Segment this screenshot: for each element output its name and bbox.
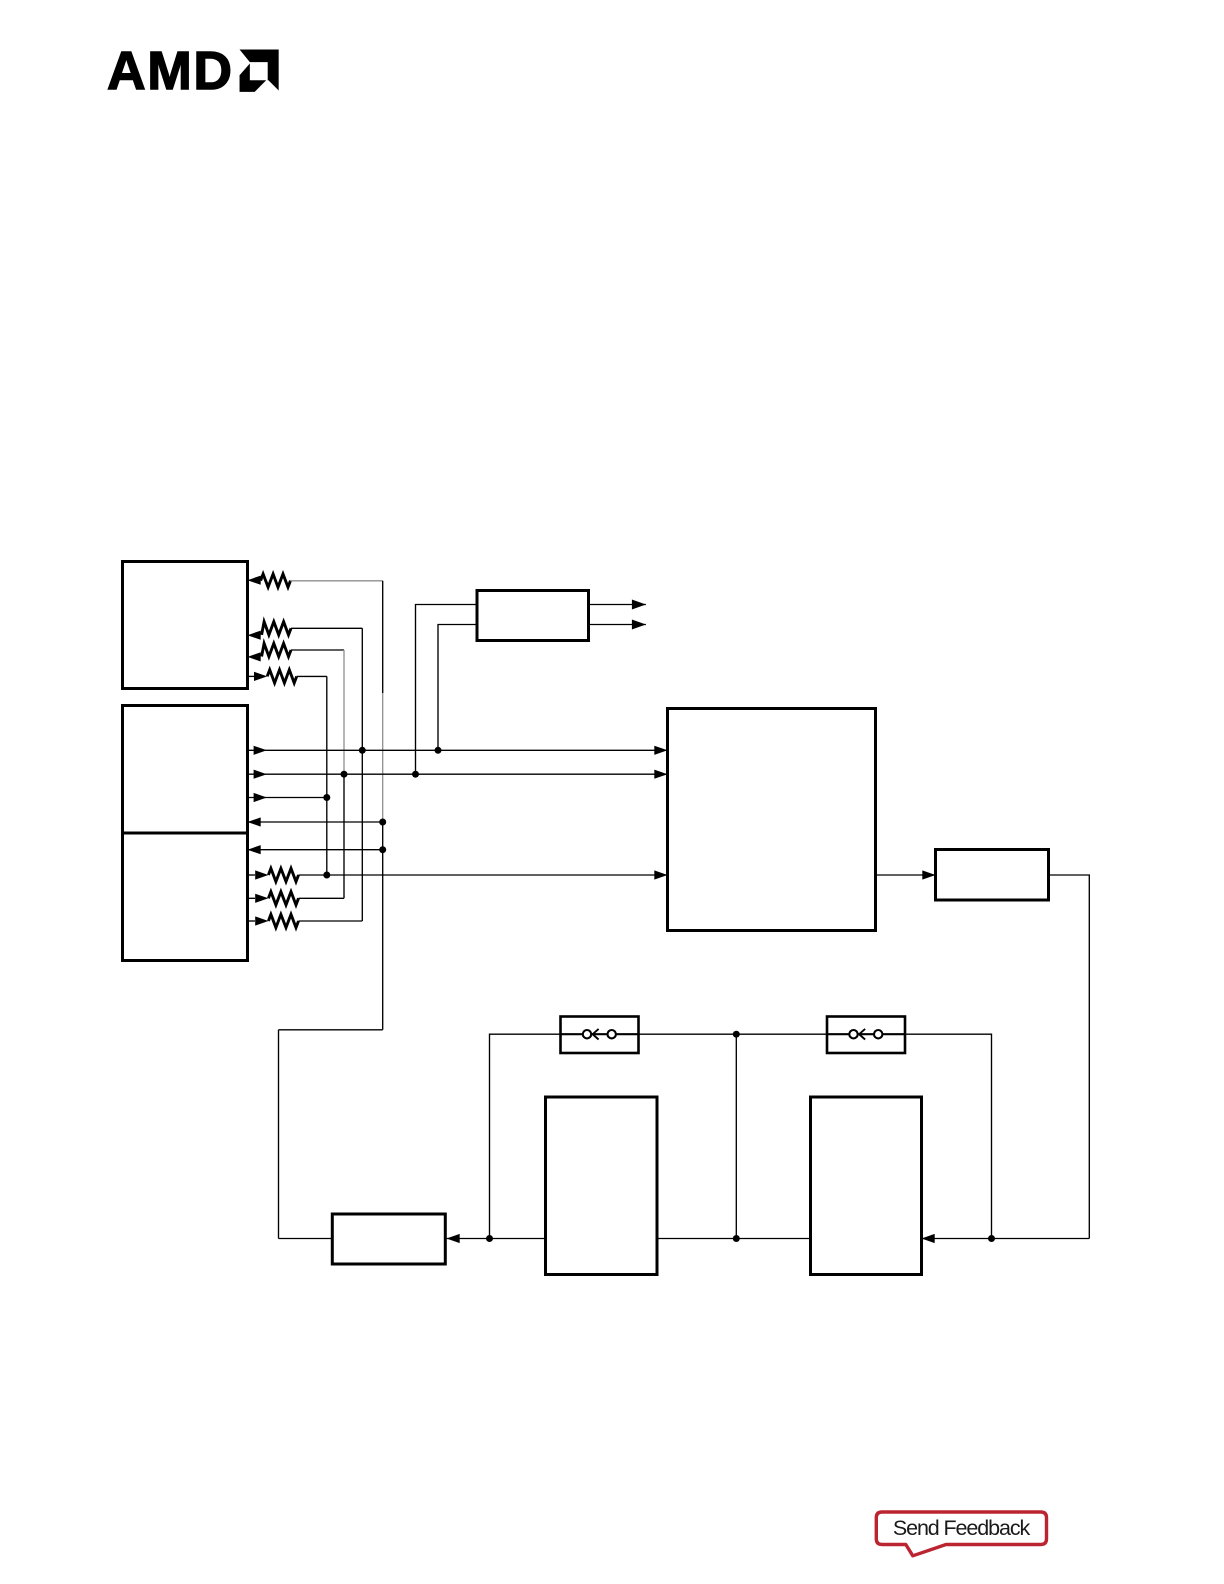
valve V2 chevron arrow [859,1029,865,1040]
wire valve V1 to valve V2 [639,1033,828,1035]
wire horizontal y1024 to left [279,1029,383,1031]
wire row7 to vertical x344 [299,897,345,899]
resistor R4 arrowhead pointing right [254,672,267,681]
resistor R4 zigzag [267,670,297,683]
junction dot bottom rail x991 [988,1235,995,1242]
wire row5 from vertical x383 into bottom box [248,849,383,851]
wire vertical x278 down to bottom rail [278,1030,280,1239]
wire vertical x383 middle section (gray) [382,693,384,822]
block: top-center box [477,591,589,641]
wire valve V1 left segment and drop [490,1034,561,1238]
junction dot row2 x344 [341,771,348,778]
Send Feedback speech bubble [876,1512,1046,1556]
block: middle-left box [123,706,248,834]
junction dot valve mid x736 [733,1031,740,1038]
arrowhead row2 into main box [654,770,667,779]
block: top-left control box [123,562,248,689]
wire bottom rail feedback box to left tall box [447,1238,546,1240]
wire vertical x362 from R2 to row8 [361,628,363,921]
wire vertical x327 from R4 to row6 [326,676,328,875]
block: left tall box [546,1097,658,1275]
wire right output box to right rail [1049,875,1090,1239]
junction dot row1 x438 [435,747,442,754]
wire vertical x415 row2 up to top-center box [416,605,478,775]
valve V2 right circle [874,1030,882,1038]
resistor R5 arrowhead pointing right [255,870,268,879]
resistor R7 zigzag [268,914,298,927]
wire top-center box output 1 [589,604,646,606]
valve V1 through line [561,1033,639,1035]
resistor R6 zigzag [268,892,298,905]
wire row3 middle box to x327 [248,797,327,799]
valve V1 left circle [583,1030,591,1038]
wire row7 bottom box edge [248,897,256,899]
wire R2 to vertical x362 [291,627,362,629]
wire valve V2 right segment and drop [905,1034,992,1238]
block: valve box V2 [827,1017,905,1054]
arrowhead output 1 [632,600,646,610]
wire R1 to vertical x383 (gray) [291,580,383,582]
Send Feedback label [876,1512,1046,1545]
junction dot row4 x383 [379,819,386,826]
wire top-left box to resistor R4 [248,675,256,677]
junction dot row2 x415 [412,771,419,778]
valve V1 right circle [608,1030,616,1038]
wire row6 bottom box edge [248,874,256,876]
block: bottom-left feedback box [332,1214,445,1264]
wire top-center box output 2 [589,624,646,626]
wire vertical x344 from R3 to row2 (gray) [343,650,345,774]
valve V1 chevron arrow [593,1029,599,1040]
arrowhead row6 into main box [654,870,667,879]
AMD logo wordmark [107,41,234,102]
arrowhead row2 at source [254,770,267,779]
wire bottom rail right segment [922,1238,1090,1240]
resistor R7 arrowhead pointing right [255,916,268,925]
wire R3 to vertical x344 [291,649,344,651]
arrowhead row1 at source [254,746,267,755]
wire R4 to vertical x327 [297,675,327,677]
block: right output box [936,850,1049,901]
resistor R2 zigzag [262,622,291,635]
resistor R6 arrowhead pointing right [255,894,268,903]
arrowhead row3 at source [254,793,267,802]
wire vertical x383 from row4 down to bottom corner [382,822,384,1030]
wire vertical x438 row1 up to top-center box [438,625,477,751]
wire row6 to main box [299,874,668,876]
AMD logo arrow mark upper-right piece [240,50,279,91]
block: bottom-left box [123,833,248,961]
wire bottom rail left tall box to right tall box [657,1238,811,1240]
junction dot row5 x383 [379,846,386,853]
junction dot bottom rail x489 [486,1235,493,1242]
resistor R2 arrowhead into top-left box [248,631,261,640]
wire into feedback box left edge [279,1238,333,1240]
wire vertical x736 valve row to bottom rail [735,1034,737,1238]
junction dot row6 x327 [323,872,330,879]
block: valve box V1 [561,1017,639,1054]
block: right tall box [811,1097,922,1275]
valve V2 left circle [849,1030,857,1038]
wire vertical x383 from R1 down (black part) [382,581,384,693]
valve V2 through line [827,1033,905,1035]
arrowhead output 2 [632,620,646,630]
arrowhead into right output box [922,870,935,879]
wire row2 middle box to main box [248,773,668,775]
arrowhead row5 into bottom box [248,845,261,854]
resistor R3 zigzag [262,643,291,656]
wire vertical x344 from row2 to row7 [343,774,345,898]
wire row8 bottom box edge [248,920,256,922]
block: main center box [668,709,876,931]
AMD logo arrow mark lower-left piece [240,64,267,92]
resistor R1 arrowhead into top-left box [248,576,261,585]
resistor R5 zigzag [268,868,298,881]
wire row4 from vertical x383 into middle box [248,821,383,823]
junction dot row1 x362 [359,747,366,754]
wire row8 to vertical x362 [299,920,363,922]
resistor R3 arrowhead into top-left box [248,652,261,661]
junction dot row3 x327 [323,794,330,801]
wire row1 middle box to main box [248,749,668,751]
arrowhead row1 into main box [654,746,667,755]
junction dot bottom rail x736 [733,1235,740,1242]
arrowhead into feedback box [447,1234,460,1243]
arrowhead into right tall box [922,1234,935,1243]
arrowhead row4 into middle box [248,817,261,826]
resistor R1 zigzag [261,574,291,587]
wire main box to right output box [876,874,936,876]
